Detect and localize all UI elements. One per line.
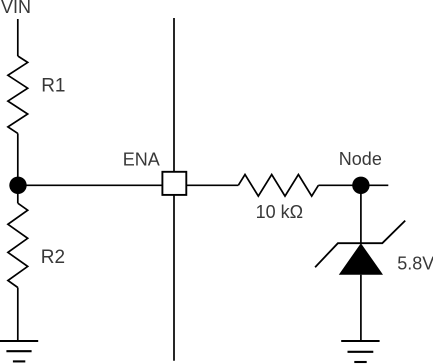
svg-text:10 kΩ: 10 kΩ (256, 202, 303, 222)
resistor 10 kOhm (238, 175, 318, 197)
junction node dot (VIN divider tap) (9, 177, 26, 194)
zener diode D1 anode triangle (339, 243, 383, 275)
resistor R1 (8, 56, 28, 133)
wire stub right of Node (361, 184, 388, 186)
wire vertical rail below ENA box (173, 195, 175, 361)
wire R1 to junction (17, 133, 19, 185)
ground (right) (341, 341, 379, 362)
wire VIN to R1 (17, 19, 19, 56)
ground (left) (0, 341, 38, 361)
svg-text:ENA: ENA (123, 150, 160, 170)
resistor R2 (8, 203, 28, 287)
ENA pin box (162, 172, 186, 195)
wire R2 to ground (17, 288, 19, 342)
node dot Node (352, 177, 369, 194)
svg-text:R2: R2 (41, 247, 65, 268)
wire ENA box to resistor (186, 184, 238, 186)
wire vertical rail above ENA box (173, 18, 175, 172)
wire resistor to Node (318, 184, 361, 186)
wire Node to zener cathode (360, 185, 362, 243)
wire zener anode to ground (360, 275, 362, 341)
svg-text:R1: R1 (41, 76, 65, 97)
wire junction to ENA box (18, 184, 162, 186)
svg-text:5.8V: 5.8V (397, 254, 433, 274)
zener diode D1 cathode bar with bent wings (315, 221, 405, 268)
svg-text:Node: Node (339, 149, 382, 169)
wire junction to R2 (17, 185, 19, 203)
svg-text:VIN: VIN (1, 0, 31, 17)
